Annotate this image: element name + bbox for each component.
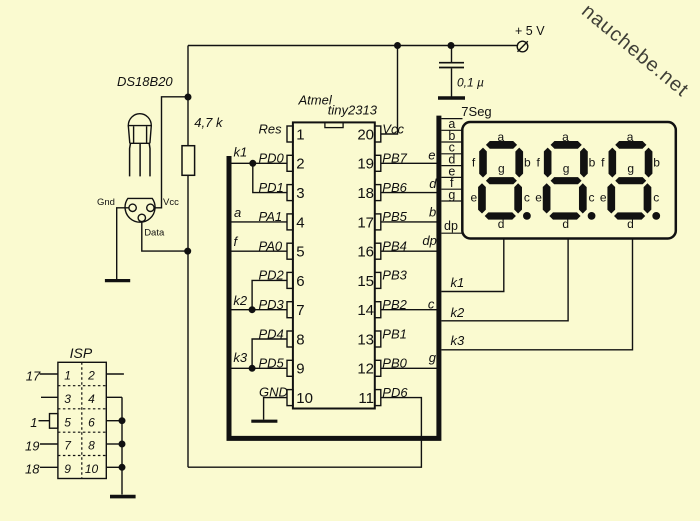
digit 2 segment f <box>544 148 552 178</box>
svg-text:Res: Res <box>259 121 283 136</box>
svg-text:PB2: PB2 <box>382 297 407 312</box>
pin boxes left pins 1-10 <box>287 126 293 406</box>
segment letters <box>471 130 661 231</box>
svg-text:tiny2313: tiny2313 <box>328 102 378 117</box>
svg-text:c: c <box>589 191 595 205</box>
svg-text:12: 12 <box>357 361 374 378</box>
svg-text:+ 5 V: + 5 V <box>515 24 545 38</box>
svg-text:7: 7 <box>64 439 72 453</box>
svg-text:9: 9 <box>64 462 71 476</box>
wire sensor Data down and right <box>142 222 188 252</box>
wire +5V top rail <box>188 45 517 47</box>
display digit 1 <box>478 141 531 220</box>
svg-text:PD1: PD1 <box>259 180 284 195</box>
svg-text:11: 11 <box>358 390 374 407</box>
svg-text:20: 20 <box>357 126 374 143</box>
TEXTS <box>117 74 484 130</box>
svg-text:PB6: PB6 <box>382 180 407 195</box>
svg-text:PD0: PD0 <box>259 151 285 166</box>
svg-text:nauchebe.net: nauchebe.net <box>577 0 693 101</box>
svg-text:18: 18 <box>357 185 374 202</box>
DS18B20 bottom view pinout <box>125 198 155 222</box>
digit 3 segment g <box>615 177 646 184</box>
pin 14 box <box>375 302 381 318</box>
svg-text:g: g <box>627 162 634 176</box>
svg-text:1: 1 <box>64 369 71 383</box>
svg-text:PB0: PB0 <box>382 356 407 371</box>
wire ISP pin9 <box>40 466 58 468</box>
digit 2 segment b <box>580 148 588 178</box>
svg-text:f: f <box>234 234 239 249</box>
display digit 3 <box>607 141 660 220</box>
wire cap top <box>451 46 453 63</box>
digit 3 segment e <box>607 183 615 213</box>
svg-text:PD4: PD4 <box>259 326 284 341</box>
pin box ISP row3 left <box>50 414 58 429</box>
svg-text:19: 19 <box>25 438 39 453</box>
svg-text:2: 2 <box>296 156 304 173</box>
svg-text:6: 6 <box>296 273 304 290</box>
digit 1 segment g <box>486 177 517 184</box>
wire display pin stub f <box>441 188 462 190</box>
svg-text:ISP: ISP <box>70 345 93 361</box>
svg-text:7: 7 <box>296 302 304 319</box>
wire dp PB4 pin16 <box>381 250 437 252</box>
node junction data/resistor <box>185 248 191 254</box>
digit 1 segment f <box>479 148 487 178</box>
svg-text:g: g <box>448 188 455 202</box>
wire b PB5 pin17 <box>381 221 437 223</box>
svg-text:3: 3 <box>296 185 304 202</box>
pin 7 box <box>287 302 293 318</box>
wire e PB7 pin19 <box>381 162 437 164</box>
wire vertical pullup/data net x=188 <box>187 46 189 468</box>
svg-text:DS18B20: DS18B20 <box>117 74 173 89</box>
digit 2 segment g <box>551 177 582 184</box>
svg-text:PB1: PB1 <box>382 326 407 341</box>
digit 1 segment d <box>485 212 516 219</box>
digit 1 segment b <box>515 148 523 178</box>
svg-text:k3: k3 <box>233 350 248 365</box>
pin 6 box <box>287 272 293 288</box>
svg-text:19: 19 <box>357 156 374 173</box>
svg-text:k1: k1 <box>234 145 248 160</box>
wire k2 to PD3 pin7 <box>232 309 288 311</box>
wire PD6 pin11 down to data net <box>188 398 421 468</box>
svg-text:g: g <box>498 162 505 176</box>
svg-text:b: b <box>653 156 660 170</box>
wire PD1 pin3 <box>253 163 287 192</box>
digit 1 segment a <box>486 141 517 149</box>
svg-text:f: f <box>601 156 605 170</box>
svg-text:PA1: PA1 <box>259 209 283 224</box>
svg-text:17: 17 <box>357 214 374 231</box>
svg-text:3: 3 <box>64 392 71 406</box>
node isp6 <box>119 418 125 424</box>
wire f PA0 pin5 <box>232 250 288 252</box>
pin 18 box <box>375 185 381 201</box>
svg-text:d: d <box>562 217 569 231</box>
notch <box>325 122 343 127</box>
wire ISP pin2 <box>106 373 124 375</box>
digit 1 decimal point dp <box>523 212 531 220</box>
svg-text:dp: dp <box>444 219 458 233</box>
svg-text:k2: k2 <box>451 305 466 320</box>
node isp8 <box>119 441 125 447</box>
svg-text:14: 14 <box>357 302 374 319</box>
pin 19 box <box>375 155 381 171</box>
svg-text:5: 5 <box>296 244 304 261</box>
wire ISP pin1 <box>40 373 58 375</box>
display digit 2 <box>543 141 596 220</box>
node junction cap rail <box>448 43 454 49</box>
pin 10 box <box>287 390 293 406</box>
svg-text:f: f <box>472 156 476 170</box>
wire a PA1 pin4 <box>232 221 288 223</box>
chip pin labels left <box>259 121 288 399</box>
wire PD2 pin6 <box>252 280 287 309</box>
svg-text:g: g <box>563 162 570 176</box>
svg-text:Vcc: Vcc <box>382 121 404 136</box>
svg-text:c: c <box>653 191 659 205</box>
wire g PB0 pin12 <box>381 367 437 369</box>
svg-text:PA0: PA0 <box>259 239 283 254</box>
svg-text:k3: k3 <box>451 333 466 348</box>
digit 2 segment d <box>549 212 580 219</box>
svg-text:e: e <box>428 147 435 162</box>
digit 3 segment b <box>645 148 653 178</box>
svg-text:d: d <box>429 176 437 191</box>
wire ISP pin7 <box>40 443 58 445</box>
ground cap <box>438 96 465 100</box>
svg-text:10: 10 <box>296 390 313 407</box>
terminal +5V <box>517 41 528 52</box>
IC U1 ATtiny2313 body <box>293 122 375 408</box>
pin 3 box <box>287 185 293 201</box>
pin 1 box <box>287 126 293 142</box>
wire GND pin10 <box>264 398 287 420</box>
svg-text:2: 2 <box>87 369 95 383</box>
wire Vcc pin20 to rail <box>381 46 398 135</box>
wire k2 display common 2 <box>441 239 568 321</box>
ground ISP <box>110 495 136 499</box>
pin 16 box <box>375 243 381 259</box>
svg-text:a: a <box>234 205 241 220</box>
pin 11 box <box>375 390 381 406</box>
node k2/PD2 <box>249 307 255 313</box>
wire display pin stub c <box>441 153 462 155</box>
digit 3 segment a <box>615 141 646 149</box>
pin 5 box <box>287 243 293 259</box>
node isp10 <box>119 465 125 471</box>
digit 1 segment e <box>478 183 486 213</box>
wire k3 to PD5 pin9 <box>232 367 288 369</box>
svg-text:PB5: PB5 <box>382 209 407 224</box>
svg-text:PB7: PB7 <box>382 151 407 166</box>
wire sensor Gnd <box>117 208 129 279</box>
wire labels <box>233 145 465 366</box>
ISP connector J1 <box>50 362 107 478</box>
wire display pin stub a <box>441 129 462 131</box>
svg-text:17: 17 <box>26 369 41 384</box>
wire ISP pin5 reset <box>39 420 50 422</box>
pin boxes right pins 20-11 <box>375 126 381 406</box>
svg-text:5: 5 <box>64 415 71 429</box>
svg-text:15: 15 <box>357 273 374 290</box>
wire d PB6 pin18 <box>381 192 437 194</box>
digit 2 segment e <box>543 183 551 213</box>
svg-text:PD3: PD3 <box>259 297 285 312</box>
chip pin labels right <box>382 121 408 400</box>
wire display pin stub b <box>441 141 462 143</box>
pin 9 box <box>287 360 293 376</box>
node junction sensor Vcc <box>185 94 191 100</box>
svg-text:b: b <box>524 156 531 170</box>
pin 17 box <box>375 214 381 230</box>
node k3/PD4 <box>249 366 255 372</box>
svg-text:PD6: PD6 <box>382 385 408 400</box>
svg-text:Data: Data <box>144 227 165 238</box>
node k1/PD1 <box>250 161 256 167</box>
ladder letters <box>444 117 458 233</box>
svg-text:b: b <box>429 205 436 220</box>
svg-text:8: 8 <box>296 331 304 348</box>
svg-text:d: d <box>627 217 634 231</box>
svg-text:9: 9 <box>296 361 304 378</box>
wire ISP gnd rail <box>106 397 122 494</box>
pin 8 box <box>287 331 293 347</box>
digit 3 segment c <box>644 183 652 213</box>
svg-text:13: 13 <box>357 331 374 348</box>
ground chip <box>251 420 277 423</box>
display 7Seg body <box>462 122 676 239</box>
pin 13 box <box>375 331 381 347</box>
wire sensor Vcc up to rail <box>154 97 188 208</box>
7-seg digits <box>478 141 660 220</box>
svg-text:k1: k1 <box>451 275 465 290</box>
svg-text:4: 4 <box>296 214 304 231</box>
svg-text:Gnd: Gnd <box>97 197 115 208</box>
wire display pin stub d <box>441 165 462 167</box>
ISP labels <box>25 345 93 476</box>
pin 12 box <box>375 360 381 376</box>
svg-text:GND: GND <box>259 385 288 400</box>
wire k1 display common 1 <box>441 239 503 292</box>
wire k1 to PD0 pin2 <box>232 162 288 164</box>
pin 2 box <box>287 155 293 171</box>
svg-text:16: 16 <box>357 244 374 261</box>
wire ISP pin10 <box>106 466 122 468</box>
digit 1 segment c <box>514 183 522 213</box>
wire display pin stub dp <box>441 232 462 234</box>
svg-text:c: c <box>524 191 530 205</box>
digit 3 decimal point dp <box>652 212 660 220</box>
digit 2 decimal point dp <box>588 212 596 220</box>
wire c PB2 pin14 <box>381 309 437 311</box>
svg-text:PD2: PD2 <box>259 268 285 283</box>
wire ISP pin3 <box>41 396 58 398</box>
wire ISP pin8 <box>106 443 122 445</box>
svg-text:e: e <box>471 191 478 205</box>
svg-text:g: g <box>429 350 437 365</box>
svg-text:1: 1 <box>30 415 37 430</box>
pin 15 box <box>375 272 381 288</box>
svg-text:f: f <box>536 156 540 170</box>
svg-text:18: 18 <box>25 462 40 477</box>
svg-text:4: 4 <box>88 392 95 406</box>
svg-text:7Seg: 7Seg <box>461 104 491 119</box>
svg-text:a: a <box>627 130 634 144</box>
svg-text:e: e <box>535 191 542 205</box>
svg-text:a: a <box>497 130 504 144</box>
pin 20 box <box>375 126 381 142</box>
svg-text:PD5: PD5 <box>259 356 285 371</box>
digit 3 segment d <box>614 212 645 219</box>
svg-text:b: b <box>589 156 596 170</box>
ground sensor <box>105 279 130 282</box>
capacitor C1 0,1u plates <box>439 63 464 68</box>
wire ISP pin6 <box>106 420 122 422</box>
wire PD4 pin8 <box>252 339 287 368</box>
svg-text:0,1 µ: 0,1 µ <box>457 76 484 90</box>
resistor R1 4,7k <box>182 146 195 176</box>
svg-text:a: a <box>562 130 569 144</box>
wire display pin stub e <box>441 176 462 178</box>
svg-text:PB4: PB4 <box>382 239 407 254</box>
wire display pin stub top <box>441 118 462 120</box>
digit 3 segment f <box>609 148 617 178</box>
digit 2 segment a <box>551 141 582 149</box>
svg-text:1: 1 <box>296 126 304 143</box>
svg-text:Vcc: Vcc <box>163 197 179 208</box>
svg-text:e: e <box>600 191 607 205</box>
transistor-style sensor DS18B20 TO-92 front view <box>128 114 151 177</box>
pin numbers <box>296 126 313 407</box>
small labels sensor <box>97 197 179 239</box>
display pin ladder a-g <box>441 119 462 234</box>
svg-text:4,7 k: 4,7 k <box>194 115 224 130</box>
pin 4 box <box>287 214 293 230</box>
bus thick U left-bottom-right <box>227 116 439 441</box>
svg-text:dp: dp <box>422 233 436 248</box>
digit 2 segment c <box>579 183 587 213</box>
svg-text:c: c <box>428 296 435 311</box>
svg-text:6: 6 <box>88 415 95 429</box>
node junction Vcc rail <box>395 43 401 49</box>
svg-text:10: 10 <box>85 462 99 476</box>
svg-text:d: d <box>498 217 505 231</box>
wire cap bottom <box>451 68 453 96</box>
svg-text:k2: k2 <box>233 293 248 308</box>
svg-text:8: 8 <box>88 439 95 453</box>
wire k3 display common 3 <box>441 239 632 350</box>
svg-text:PB3: PB3 <box>382 268 407 283</box>
wire display pin stub g <box>441 200 462 202</box>
